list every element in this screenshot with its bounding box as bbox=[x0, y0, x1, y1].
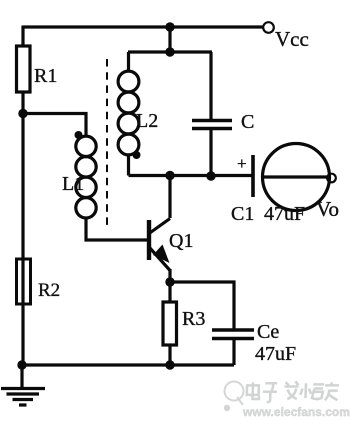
svg-text:www.elecfans.com: www.elecfans.com bbox=[242, 405, 350, 419]
svg-text:C: C bbox=[241, 111, 254, 133]
svg-text:+: + bbox=[237, 154, 247, 173]
svg-text:Vo: Vo bbox=[316, 197, 339, 221]
svg-text:47uF: 47uF bbox=[264, 203, 305, 225]
svg-text:C1: C1 bbox=[231, 203, 254, 225]
svg-text:Ce: Ce bbox=[257, 321, 279, 343]
svg-text:L2: L2 bbox=[136, 110, 158, 132]
svg-text:Q1: Q1 bbox=[169, 230, 193, 252]
svg-text:47uF: 47uF bbox=[255, 343, 296, 365]
svg-text:R1: R1 bbox=[34, 65, 57, 87]
svg-text:L1: L1 bbox=[62, 173, 84, 195]
svg-text:R3: R3 bbox=[182, 308, 205, 330]
svg-text:Vcc: Vcc bbox=[275, 27, 309, 51]
svg-text:R2: R2 bbox=[38, 280, 60, 301]
